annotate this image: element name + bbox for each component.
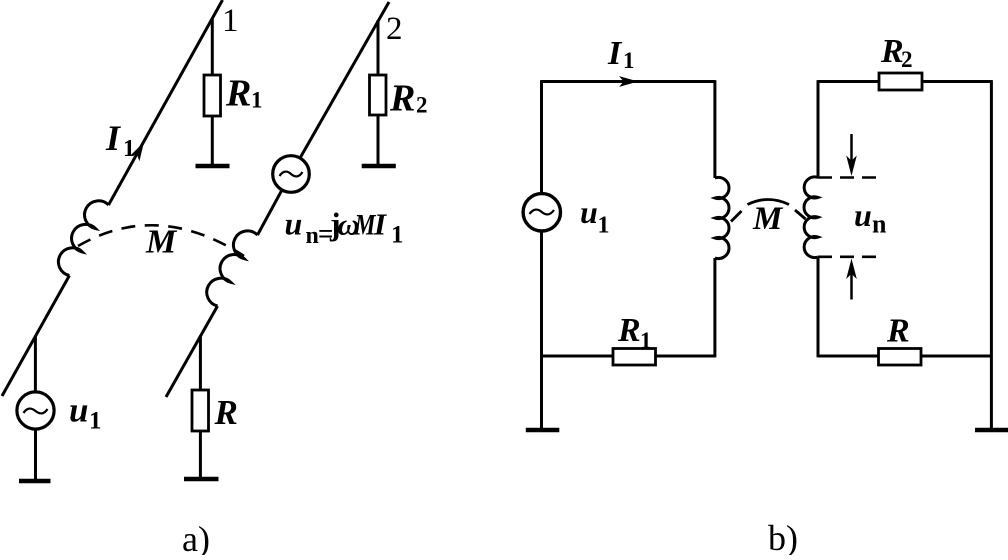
wire: line 1 upper diagonal segment bbox=[109, 0, 223, 205]
svg-text:M: M bbox=[752, 201, 784, 237]
mutual inductance dashed arc M (part a) bbox=[78, 225, 244, 256]
label u_n = jwMI1 bbox=[285, 206, 404, 250]
up arrow below dashed line (b) bbox=[846, 259, 857, 300]
svg-text:I: I bbox=[105, 118, 122, 158]
wire: line 1 lower diagonal segment bbox=[2, 276, 69, 397]
resistor R (part a) bbox=[192, 390, 209, 431]
svg-text:1: 1 bbox=[623, 48, 635, 73]
wire: right vertical of right loop (b) bbox=[990, 80, 993, 428]
dashed line at bottom of secondary coil (b) bbox=[818, 255, 877, 258]
wire: top wire of left loop (b) bbox=[542, 80, 715, 83]
svg-text:1: 1 bbox=[640, 328, 652, 353]
svg-text:R: R bbox=[214, 393, 238, 432]
ground under u1 (part a) bbox=[19, 479, 51, 484]
secondary inductor coil (b) bbox=[804, 177, 818, 258]
mutual inductance dashed arc M (part b) bbox=[731, 200, 806, 222]
svg-text:R: R bbox=[389, 78, 415, 120]
ground under R2 (part a) bbox=[362, 164, 396, 169]
arrowhead for current I1 on line 1 bbox=[130, 142, 144, 161]
wire: bottom wire left of R (b) bbox=[818, 355, 879, 358]
svg-text:R: R bbox=[617, 312, 641, 349]
wire: u1 to ground bbox=[34, 429, 37, 480]
inductor coil on line 2 bbox=[207, 231, 258, 306]
wire: top wire of right loop left of R2 (b) bbox=[818, 80, 879, 83]
svg-text:2: 2 bbox=[901, 47, 913, 72]
wire: bottom wire right of R1 (b) bbox=[656, 355, 715, 358]
svg-text:a): a) bbox=[182, 519, 210, 555]
wire: R1 to ground bbox=[211, 116, 214, 165]
resistor R (part b) bbox=[879, 349, 922, 366]
wire: R to ground bbox=[199, 431, 202, 478]
wire: left vertical of right loop above coil (b) bbox=[817, 80, 820, 177]
wire: line 2 upper diagonal segment bbox=[300, 2, 389, 158]
svg-text:u: u bbox=[285, 206, 303, 242]
wire: line1 junction to source u1 bbox=[34, 337, 37, 393]
ground of left loop (b) bbox=[526, 428, 560, 433]
wire: right vertical of left loop below coil (b) bbox=[713, 258, 716, 357]
ground of right loop (b) bbox=[975, 428, 1008, 433]
svg-text:b): b) bbox=[768, 518, 798, 555]
wire: bottom wire right of R (b) bbox=[921, 355, 991, 358]
svg-text:n: n bbox=[306, 223, 319, 249]
svg-text:2: 2 bbox=[416, 93, 428, 118]
svg-text:R: R bbox=[886, 313, 910, 350]
svg-text:I: I bbox=[607, 35, 623, 72]
svg-text:1: 1 bbox=[123, 136, 135, 162]
wire: bottom wire left of R1 (b) bbox=[542, 355, 614, 358]
dashed line at top of secondary coil (b) bbox=[818, 176, 877, 179]
inductor coil on line 1 bbox=[58, 201, 108, 276]
wire: u1 down to bottom junction and ground stub (b) bbox=[540, 231, 543, 428]
wire: line2 junction to resistor R bbox=[199, 336, 202, 390]
wire: right vertical of left loop above coil (b) bbox=[713, 80, 716, 178]
ground under R (part a) bbox=[184, 477, 219, 482]
svg-text:u: u bbox=[69, 391, 88, 430]
resistor R1 (part a) bbox=[204, 75, 221, 116]
svg-text:n: n bbox=[872, 209, 887, 238]
svg-text:M: M bbox=[145, 223, 178, 260]
arrowhead for current I1 (b) bbox=[619, 76, 638, 87]
svg-text:u: u bbox=[580, 194, 598, 230]
primary inductor coil (b) bbox=[715, 177, 729, 258]
svg-text:1: 1 bbox=[222, 3, 239, 39]
wire: node2 to R2 bbox=[377, 20, 380, 75]
wire: left vertical of left loop (b) bbox=[540, 80, 543, 194]
wire: left vertical of right loop below coil (b) bbox=[817, 257, 820, 357]
svg-text:R: R bbox=[225, 73, 251, 115]
ground under R1 (part a) bbox=[196, 164, 230, 169]
source u1 (part b) bbox=[523, 194, 560, 231]
wire: line 2 between source and coil bbox=[258, 190, 283, 235]
svg-text:1: 1 bbox=[391, 222, 404, 249]
svg-text:I: I bbox=[373, 207, 387, 242]
wire: R2 to ground bbox=[377, 115, 380, 165]
svg-text:1: 1 bbox=[89, 408, 102, 435]
wire: node1 to R1 bbox=[211, 19, 214, 75]
resistor R1 (part b) bbox=[613, 349, 656, 366]
resistor R2 (part a) bbox=[370, 75, 387, 115]
svg-text:2: 2 bbox=[386, 11, 403, 47]
wire: line 2 lower diagonal segment bbox=[166, 306, 218, 397]
down arrow above dashed line (b) bbox=[846, 134, 857, 176]
svg-text:u: u bbox=[854, 197, 872, 233]
resistor R2 (part b) bbox=[879, 73, 922, 90]
svg-text:1: 1 bbox=[251, 88, 263, 113]
wire: top wire of right loop right of R2 (b) bbox=[922, 80, 991, 83]
svg-text:1: 1 bbox=[598, 212, 610, 238]
induced source u_n circle on line 2 bbox=[273, 156, 310, 193]
source u1 (part a) bbox=[17, 392, 54, 429]
